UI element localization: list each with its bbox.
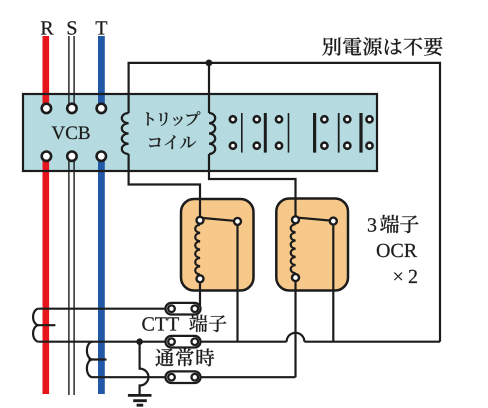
aux coil winding [209,113,215,154]
auxiliary contact 2b [339,113,351,153]
VCB terminal S bottom [67,152,76,161]
auxiliary contact 2a (bar left, circles right) [315,113,328,153]
auxiliary contact 1b (thick bar) [254,113,266,153]
junction dot at aux coil / top loop [206,60,213,67]
CTT terminal 1 [166,303,201,383]
label CTT 端子 [189,315,207,332]
label T [96,21,108,34]
wire: OCR1 coil bottom to CTT terminal 1 [199,283,201,306]
VCB terminal T bottom [97,152,106,161]
wire: OCR2 coil bottom down through hop to row C [294,282,296,377]
VCB enclosure box fill [23,94,377,171]
wire: aux coil lead upper [208,63,210,113]
phase line R (red) [42,36,49,394]
auxiliary contact 2c (thick bar) [361,113,373,153]
VCB terminal S top [67,104,76,113]
label 3 (of 3端子) [368,218,376,231]
label トリップ [146,112,154,125]
wire: earth tap with hop over row C [140,342,149,395]
OCR2 contact blade [298,218,329,221]
label S [68,21,77,34]
auxiliary contact 1c [276,113,289,153]
ground symbol [128,395,152,405]
OCR relay box 2 [276,199,348,291]
label コイル [149,138,161,147]
OCR1 terminal pin 2 (contact) [234,218,241,225]
VCB terminal R top [42,104,51,113]
auxiliary contact 1a (circles left, bar right) [230,113,242,153]
wire: top control loop (trip supply) [129,63,440,342]
wire: OCR2 right contact to common bus [332,226,334,342]
label x2 [394,272,402,280]
VCB terminal T top [97,104,106,113]
trip coil winding [122,113,129,154]
OCR1 terminal pin 1 (coil top/pivot) [197,217,204,224]
label 3端子 [380,215,399,233]
label R [41,21,54,34]
CTT terminal 2 [166,336,201,348]
label 通常時 [155,349,173,367]
OCR relay box 1 [181,199,254,291]
CTT terminal 3 [166,371,201,383]
OCR1 terminal pin 3 (coil bottom) [197,275,204,282]
OCR2 terminal pin 2 (contact) [330,218,337,225]
label 別電源は不要 [146,37,443,366]
label OCR [377,244,390,257]
OCR1 relay coil spring [195,225,200,275]
OCR2 terminal pin 3 (coil bottom) [292,274,299,281]
wire: row B common bus (CT-R l lead, terminal 2, OCR commons) [39,341,440,343]
VCB terminal R bottom [42,152,51,161]
OCR2 terminal pin 1 (coil top/pivot) [292,216,299,223]
CT on phase T (secondary winding) [87,342,107,378]
phase line S (double line) [69,36,74,395]
OCR2 relay coil spring [291,224,296,273]
wire: row A (CT-R k lead to terminal 1) [39,308,166,310]
OCR1 contact blade [203,218,234,221]
CT on phase R (secondary winding) [33,309,55,342]
phase line T (blue) [98,36,105,394]
wire: trip coil lead lower to OCR1 [129,154,200,216]
wire hop: row B jumps OCR2 coil wire [287,333,305,342]
wire: row C (CT-T l lead, terminal 3 to OCR2 coil) [93,376,296,378]
junction dot at earth tap on row B [136,338,143,345]
wire: OCR1 right contact to common bus [236,226,238,342]
wire: trip coil lead upper [128,94,130,113]
VCB enclosure box border [23,94,377,171]
wire: aux coil lead lower to OCR2 [209,154,296,216]
label VCB [52,127,65,140]
label CTT (latin) [142,317,153,330]
